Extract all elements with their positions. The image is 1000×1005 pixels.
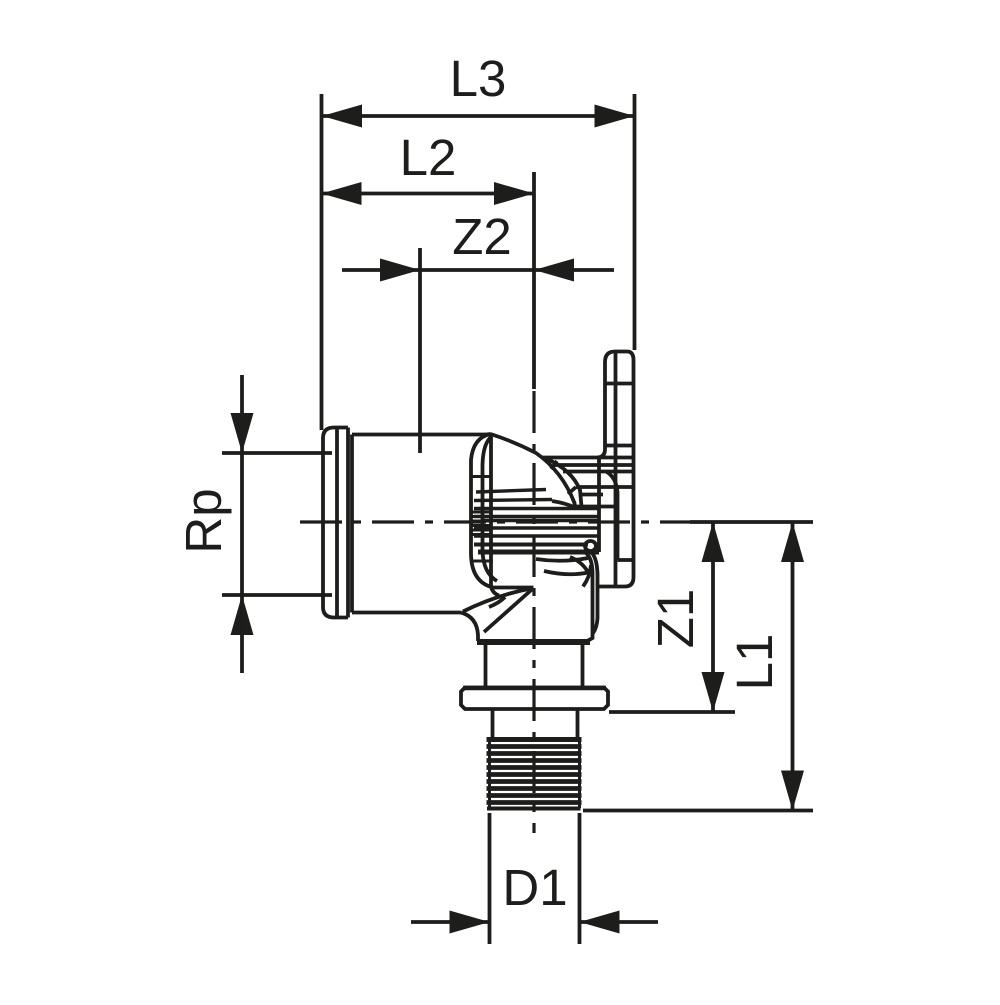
extension line (D1 right) — [578, 813, 582, 944]
wall plate inner vertical — [614, 352, 618, 587]
outlet shoulder thick line — [477, 639, 590, 645]
dimension Z2 line with outside arrows — [342, 259, 614, 282]
svg-text:L1: L1 — [726, 634, 783, 691]
bend band inner curve — [546, 459, 582, 507]
band bottom slope — [552, 501, 574, 507]
left socket ring (Rp end) — [323, 428, 348, 618]
cone transition lower diagonal — [484, 588, 534, 632]
extension line (Z2 left) — [418, 248, 422, 453]
bell inner left line — [483, 436, 498, 581]
bell seam line — [491, 437, 499, 596]
body cylinder (Rp socket) — [352, 435, 487, 613]
dimension Rp lines and arrows — [231, 375, 254, 673]
extension line (Rp top) — [222, 451, 332, 455]
svg-text:L2: L2 — [400, 129, 457, 186]
dimension D1 lines with outside arrows — [411, 911, 658, 934]
extension line (Z1 bottom) — [609, 710, 735, 714]
svg-text:L3: L3 — [450, 50, 507, 107]
union ribs across bell — [474, 490, 599, 545]
union nut right face — [597, 458, 601, 553]
svg-text:Z1: Z1 — [647, 589, 704, 649]
band tick 1 — [551, 461, 557, 469]
male rib bands — [487, 747, 582, 803]
nut skirt curve — [592, 553, 598, 634]
collar top accent — [463, 686, 606, 691]
male rib top thick line — [487, 737, 582, 742]
svg-text:Rp: Rp — [175, 488, 232, 553]
plate lower texture curves — [570, 557, 591, 587]
wall plate horizontal 3 — [618, 558, 634, 562]
outlet right edge — [586, 553, 593, 642]
rib stack bottom thick line — [478, 550, 599, 555]
wall plate horizontal 1 — [605, 382, 634, 386]
male rib side edges — [490, 739, 580, 808]
dimension L3 line — [322, 105, 635, 128]
dimension Z1 line — [702, 522, 725, 712]
dimension L2 line — [322, 182, 535, 205]
neck lines bell to plate — [541, 458, 634, 507]
wavy lines below ribs — [536, 558, 588, 561]
extension line (Rp bottom) — [222, 593, 332, 597]
bell dome silhouette and bend band — [484, 434, 575, 508]
cone transition upper diagonal — [463, 588, 534, 612]
extension line (D1 left) — [488, 813, 492, 944]
male end bottom line — [487, 807, 581, 811]
extension line right (L3) — [633, 94, 637, 350]
band tick 2 — [568, 487, 576, 494]
dimension L1 line — [781, 522, 804, 811]
svg-text:D1: D1 — [502, 859, 567, 916]
centerline horizontal (Rp axis) — [300, 520, 690, 523]
fillet body to outlet — [461, 613, 478, 642]
rib ticks on bell left edge — [471, 477, 493, 562]
cylinder below collar — [493, 709, 578, 738]
bell outer left edge — [471, 434, 534, 588]
centerline vertical (outlet axis) — [532, 391, 535, 833]
extension line right (L2, becomes outlet centerline) — [532, 172, 536, 389]
union nut boss detail — [585, 541, 596, 551]
wall plate left edge jog — [606, 472, 618, 561]
wall plate outline — [597, 352, 634, 587]
collar disc — [461, 688, 608, 710]
cone crossing arc — [489, 597, 505, 607]
extension line left (L3/L2) — [320, 94, 324, 430]
wall plate horizontal 2 — [605, 444, 634, 448]
extension line (L1 bottom) — [583, 809, 813, 813]
svg-text:Z2: Z2 — [452, 208, 512, 265]
extension line (Z1/L1 top, at axis level) — [690, 520, 813, 524]
outlet neck below shoulder — [486, 645, 583, 688]
